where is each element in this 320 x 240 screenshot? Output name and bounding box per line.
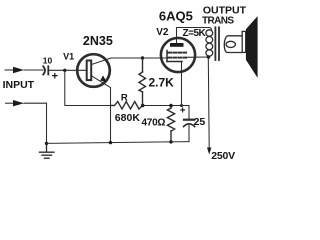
svg-text:+: + (180, 106, 186, 117)
wire collector to tube grid (111, 57, 166, 59)
plate (170, 43, 184, 47)
tube V2 6AQ5 (161, 28, 209, 106)
svg-text:10: 10 (43, 55, 53, 65)
transformer secondary (224, 36, 242, 53)
transformer core (215, 27, 219, 60)
cathode bracket (167, 51, 182, 62)
svg-text:V1: V1 (63, 51, 74, 61)
wire cap to base (48, 69, 86, 71)
transformer T1 primary (206, 30, 213, 56)
svg-text:TRANS: TRANS (202, 16, 234, 27)
grid 1 dashes (168, 52, 186, 54)
node base junction (63, 69, 66, 72)
node 2.7K/680K junction (141, 104, 145, 108)
node cathode rail junction (180, 104, 183, 107)
wire base junction down (65, 70, 112, 105)
screen lead to right (186, 56, 208, 58)
cathode rail wire (143, 105, 189, 107)
capacitor 10 (43, 66, 48, 74)
svg-text:INPUT: INPUT (3, 79, 35, 91)
ground bus wire (47, 142, 190, 144)
node 470 bottom junction (169, 140, 172, 143)
svg-text:250V: 250V (211, 150, 235, 162)
node emitter bus junction (109, 141, 112, 144)
svg-text:2.7K: 2.7K (149, 76, 175, 90)
wire plate to transformer (177, 28, 212, 31)
resistor R 680K (111, 102, 143, 110)
ground (40, 143, 55, 158)
svg-text:V2: V2 (156, 27, 169, 38)
node collector junction (141, 56, 144, 59)
svg-text:2N35: 2N35 (83, 34, 113, 48)
svg-text:680K: 680K (115, 112, 141, 124)
node screen/primary junction (207, 55, 211, 59)
node 470 top junction (169, 104, 173, 108)
svg-text:6AQ5: 6AQ5 (159, 8, 193, 23)
svg-text:+: + (52, 71, 58, 83)
plate lead (176, 28, 178, 44)
svg-text:R: R (121, 92, 128, 103)
grid 2 dashes (168, 57, 186, 59)
node ground junction (45, 142, 48, 145)
B+ wire 250V (207, 57, 211, 155)
resistor 470 ohm (167, 106, 174, 142)
svg-text:470Ω: 470Ω (142, 118, 166, 129)
wire emitter down (110, 88, 112, 143)
svg-text:25: 25 (194, 116, 206, 128)
cathode lead down (181, 62, 183, 106)
input terminal top arrow (5, 67, 43, 73)
speaker (242, 16, 257, 78)
wire bottom terminal down to ground bus (46, 103, 48, 143)
capacitor 25 (184, 106, 195, 142)
input terminal bottom arrow (6, 100, 47, 106)
resistor 2.7K (139, 58, 146, 106)
svg-text:Z=5K: Z=5K (183, 28, 207, 39)
transistor Q1 2N35 (77, 54, 111, 87)
